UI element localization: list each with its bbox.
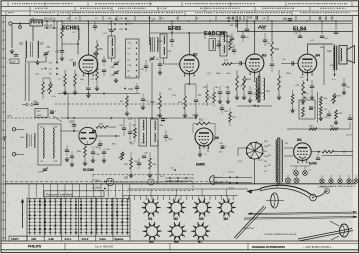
cap C26 <box>194 84 198 113</box>
svg-text:B4: B4 <box>224 217 228 221</box>
header row2 text <box>35 8 346 9</box>
cluster right of B3 caps <box>241 30 250 42</box>
resistor R10 <box>159 92 162 113</box>
header rule 2 <box>1 10 359 12</box>
labels sprinkle 4 <box>300 65 336 79</box>
wire IF down <box>111 58 113 62</box>
coil S26 <box>38 41 39 58</box>
tube socket B2 (bottom view) <box>167 199 186 217</box>
svg-text:C80a: C80a <box>95 181 101 183</box>
node labels k17 p1 p2 <box>35 63 53 76</box>
wire antenna to filter <box>12 23 30 26</box>
svg-text:B3: B3 <box>199 217 203 221</box>
top strip labels mid <box>160 18 199 20</box>
svg-text:PHILIPS: PHILIPS <box>28 245 42 249</box>
tuning shaft <box>298 229 353 242</box>
label C45 <box>283 19 292 22</box>
pickup connector <box>106 178 114 186</box>
IF can3 outline <box>220 32 227 56</box>
label C47t <box>310 40 325 49</box>
cap C48 <box>310 80 314 95</box>
top strip labels left <box>31 18 99 20</box>
top strip labels right <box>262 18 335 20</box>
socket header line <box>128 189 248 197</box>
rail junction dots <box>32 20 337 22</box>
cap C89 <box>102 148 106 158</box>
vertical wire x324 <box>323 45 325 85</box>
node u1 dot <box>192 115 197 119</box>
tag strip box <box>126 39 140 78</box>
tube B4 EL84 <box>298 54 317 75</box>
resistor R27 <box>302 79 309 99</box>
svg-text:4-48: 4-48 <box>11 61 16 63</box>
wire B3 grid <box>232 61 246 65</box>
label C36 <box>156 115 161 117</box>
label R22 <box>275 48 280 51</box>
label C31 <box>168 139 173 141</box>
wire TX to B5 <box>284 148 294 156</box>
svg-text:C86a: C86a <box>95 188 101 190</box>
label EZ40 <box>309 162 317 166</box>
lamp sublabels <box>320 185 355 188</box>
resistor in box <box>302 107 305 117</box>
svg-text:S.p.A. MILANO: S.p.A. MILANO <box>95 244 113 248</box>
vertical node line x149 <box>149 16 156 45</box>
comb ticks under chassis <box>123 196 238 201</box>
right margin rule <box>352 16 354 184</box>
footer schema title <box>252 245 286 249</box>
socket label B2 <box>174 217 178 221</box>
trimmer C84 <box>38 167 48 173</box>
IF can4 outline <box>151 119 159 146</box>
svg-text:EM80: EM80 <box>196 163 205 167</box>
tube B5 EZ40 <box>294 143 312 163</box>
wire vertical x68 mid <box>67 94 69 119</box>
svg-text:C82: C82 <box>69 122 74 124</box>
cap C42 <box>225 86 230 99</box>
label +7 <box>303 96 309 100</box>
top right stubs <box>319 16 332 21</box>
lamp C2 <box>303 170 312 175</box>
cap C34r <box>263 33 271 46</box>
cap C82 <box>69 120 76 131</box>
ballast box R2 <box>35 108 48 117</box>
fuse terminals <box>22 103 36 105</box>
vertical wire x57 <box>56 21 58 62</box>
ground trimmer161 <box>114 78 118 83</box>
wire B2 cathode <box>188 74 190 84</box>
resistor R63 <box>124 152 132 173</box>
volume pot R18 <box>241 76 247 95</box>
switch matrix frame <box>27 198 130 242</box>
label C20 <box>124 87 133 91</box>
wire pickup 2 <box>154 181 185 183</box>
ground R11 <box>183 113 187 118</box>
label C33 <box>229 23 238 27</box>
svg-text:EZ40: EZ40 <box>309 162 317 166</box>
tube socket B4 (bottom view) <box>217 199 236 217</box>
second rail right <box>62 23 352 25</box>
phono dashed box <box>93 175 193 191</box>
ground mid cluster <box>129 173 152 178</box>
node labels u30 u31 <box>226 18 237 22</box>
svg-text:Posizione Onde Medie: Posizione Onde Medie <box>46 192 74 196</box>
tube label EL84 <box>293 27 307 33</box>
power TX primary <box>275 140 276 182</box>
header row1 text <box>12 3 347 4</box>
socket label B7 <box>198 240 202 244</box>
ground R6 <box>73 90 77 95</box>
wire B4 grid <box>281 61 298 65</box>
power TX secondary <box>281 140 282 182</box>
wire C8 gnd <box>61 52 63 56</box>
wire B4 cathode <box>306 73 308 80</box>
vertical line x152 <box>151 62 153 118</box>
tube socket B7 (bottom view) <box>191 222 210 240</box>
wire net y62 l <box>104 65 116 67</box>
wire B3 anode <box>254 21 256 54</box>
label O.C.1 <box>65 237 72 241</box>
cap C98 <box>128 122 136 140</box>
svg-text:B3: B3 <box>262 54 266 58</box>
label C86b <box>96 154 101 156</box>
cap C9 <box>93 21 97 31</box>
labels S-contacts <box>264 141 269 173</box>
node row k30 u31 <box>108 18 127 21</box>
resistor R36 <box>291 90 294 108</box>
rail EF85 anode <box>150 32 212 34</box>
header separators <box>6 2 352 15</box>
FM input coil S30 <box>20 134 27 148</box>
resistor R4 <box>64 70 67 90</box>
socket label B1 <box>148 217 152 221</box>
wire R51 right <box>108 126 116 128</box>
ground antenna <box>10 49 14 54</box>
pointer rail top <box>248 211 357 215</box>
wire diagonal <box>53 116 62 122</box>
label +205V <box>303 91 309 95</box>
ground C52sp <box>342 90 346 95</box>
coil right of core <box>264 78 265 100</box>
tube socket B6 (bottom view) <box>168 222 187 240</box>
tube label EF85 <box>168 26 181 32</box>
ground C40 C42 <box>218 99 230 104</box>
cap C22 <box>158 60 162 70</box>
footer app code <box>303 246 332 249</box>
label G.M. <box>49 237 55 241</box>
chassis dashes <box>5 181 230 183</box>
dial cord curve <box>260 185 311 194</box>
switch group separators <box>44 198 113 242</box>
res R15b <box>229 108 237 126</box>
labels windings <box>268 143 288 167</box>
label R24 <box>247 79 271 93</box>
trimmer C16 <box>110 61 119 69</box>
wires EABC region <box>205 32 232 39</box>
label S32f <box>40 127 58 163</box>
antenna terminal A2 <box>19 26 22 29</box>
svg-text:ECC85: ECC85 <box>83 168 94 172</box>
ground R23 <box>277 95 281 100</box>
TASTI box <box>9 236 27 241</box>
resistor R7 <box>96 62 99 86</box>
vertical wire x317 <box>317 92 319 123</box>
ground R10 <box>158 113 162 118</box>
mains plug <box>210 176 223 185</box>
cap C15 <box>102 70 106 76</box>
socket label B3 <box>199 217 203 221</box>
header rule 1 <box>1 6 359 8</box>
wire vertical pair <box>25 63 29 101</box>
rule y31 right half <box>238 31 353 33</box>
svg-text:S 2a: S 2a <box>52 96 57 98</box>
dial top lamps <box>285 178 358 183</box>
tube label ECH81 <box>62 26 80 32</box>
resistor R31 <box>320 107 329 116</box>
switch contact columns <box>29 198 129 235</box>
svg-text:k15 p15: k15 p15 <box>44 26 53 28</box>
cap x143 y98 <box>141 94 150 110</box>
svg-text:C6: C6 <box>47 45 51 49</box>
cap C4 <box>14 55 18 57</box>
svg-text:— APP. BI 550 A /03 951 e: — APP. BI 550 A /03 951 e <box>303 246 332 249</box>
label EM80 <box>196 163 205 167</box>
svg-text:S26: S26 <box>40 44 45 46</box>
label O.C.2 <box>82 237 89 241</box>
resistor R40 <box>322 150 334 153</box>
label C80a <box>95 181 107 183</box>
footer rule mid <box>1 242 359 244</box>
cap C24 <box>170 33 174 47</box>
wire cathode bus <box>185 83 196 85</box>
cap C35 <box>230 33 234 44</box>
label B4 <box>316 54 320 58</box>
transformer S12b core <box>258 76 260 102</box>
det vertical x247 <box>245 16 249 31</box>
footer separators <box>65 243 248 250</box>
heater wires bottom mid <box>165 177 192 182</box>
IF coil S14 <box>164 47 165 55</box>
cap C14 <box>109 21 113 36</box>
wire EM80 pins <box>198 146 208 157</box>
tube B2 EF85 <box>180 55 199 77</box>
caps between box and B7 <box>65 145 74 167</box>
extra grounds right <box>290 108 338 125</box>
svg-text:B2: B2 <box>174 217 178 221</box>
tube B1 ECH81 <box>79 55 98 76</box>
FM terminal 1 <box>12 128 15 131</box>
cap C10 <box>74 62 76 66</box>
footer SpA Milano <box>95 244 113 248</box>
bus C92 <box>60 117 196 119</box>
ground R18 <box>242 95 246 100</box>
resistor R3 <box>61 26 64 38</box>
svg-text:R12: R12 <box>199 119 204 122</box>
svg-text:ECH81: ECH81 <box>62 26 80 32</box>
label C6 <box>47 45 51 49</box>
tuned line 1 <box>43 128 44 158</box>
pulley axle <box>266 200 284 202</box>
FM dipole symbol <box>3 137 7 141</box>
IF can outline <box>108 36 115 58</box>
resistor R12 horiz <box>196 122 210 125</box>
cap det1 <box>217 40 221 49</box>
svg-text:S55: S55 <box>124 178 129 180</box>
diode load R16 <box>236 70 239 95</box>
wire mains bottom <box>276 184 278 188</box>
trimmer C26b <box>149 56 159 61</box>
node row k31 u31b <box>108 23 133 26</box>
svg-text:O.C.2: O.C.2 <box>82 237 89 241</box>
chassis bus <box>5 183 356 185</box>
dial pointer <box>234 206 266 239</box>
resistor R33b <box>335 110 343 119</box>
cap C30 label <box>128 118 133 121</box>
labels row y145 <box>99 143 146 146</box>
res cluster x127 y95 <box>120 94 129 116</box>
direction arrow <box>21 199 24 229</box>
resistor R22 <box>271 21 274 62</box>
ground R7 <box>95 86 99 91</box>
resistor R6 <box>74 70 77 90</box>
FM coil S31f <box>30 134 35 148</box>
wire selector left <box>238 148 247 156</box>
resistor R32 horizontal <box>330 126 338 131</box>
header rule 3 <box>1 15 359 17</box>
res R62 <box>129 118 136 144</box>
FM feeder wires <box>16 129 24 154</box>
wire B3 cathode <box>254 72 256 82</box>
IF can2 outline <box>160 34 167 58</box>
cap C44b <box>248 86 257 103</box>
wire pickup <box>114 181 148 183</box>
heater bus wire <box>287 128 350 130</box>
wire filter down <box>32 26 34 41</box>
label Fono <box>100 237 107 241</box>
wire coil b1 grid <box>78 40 79 54</box>
idler pulley <box>310 194 317 201</box>
resistor R50 <box>84 145 87 161</box>
label TASTI <box>11 237 19 241</box>
cap C51 <box>316 153 320 160</box>
svg-text:O.C.1: O.C.1 <box>65 237 72 241</box>
cap C30a <box>119 118 126 136</box>
node u8 <box>171 168 176 171</box>
label Spento <box>115 237 124 241</box>
switch matrix title box <box>44 191 104 197</box>
wire C88 <box>99 140 101 150</box>
label C65 <box>248 15 258 19</box>
EL84 top cluster <box>294 30 302 38</box>
label C47b <box>160 176 165 178</box>
label C14 <box>103 33 108 35</box>
label S26 <box>40 44 45 46</box>
svg-text:12 14: 12 14 <box>346 135 352 137</box>
svg-text:C89a: C89a <box>7 116 13 118</box>
cap det2 <box>232 44 236 55</box>
svg-text:C65: C65 <box>248 17 253 19</box>
label 12 14 plug <box>228 171 234 173</box>
tuning pulley disc <box>271 193 279 208</box>
IF coil S31 <box>154 121 155 130</box>
labels sprinkle 3 <box>282 59 292 75</box>
wire bus under B1 <box>58 93 140 95</box>
cap C52sp <box>342 78 351 90</box>
cap C40 <box>214 86 222 99</box>
tuned line 2 <box>53 128 54 158</box>
label R21 <box>258 26 267 31</box>
label B2 <box>193 53 197 57</box>
labels sprinkle 2 <box>168 89 177 97</box>
wire drop right <box>348 114 352 129</box>
cap C46 <box>270 64 274 72</box>
coil S27 <box>150 38 151 52</box>
speaker <box>339 46 355 65</box>
svg-text:F.M.: F.M. <box>32 237 37 241</box>
svg-text:SCHEMA DI PRINCIPIO: SCHEMA DI PRINCIPIO <box>252 245 286 249</box>
tube socket B5 (bottom view) <box>143 222 162 240</box>
svg-text:R10: R10 <box>151 101 156 104</box>
label S17sel <box>238 161 243 163</box>
resistor R30a <box>320 97 329 106</box>
coil S29 <box>157 38 158 52</box>
mid cluster x150 y60 <box>140 60 148 72</box>
power transformer core <box>278 138 280 184</box>
node labels k15 p15 <box>44 26 58 29</box>
node labels k16 p16 u3 <box>44 19 56 22</box>
cap C86b <box>91 146 95 158</box>
label R12 <box>199 119 204 122</box>
tube B6 EM80 <box>195 128 213 149</box>
wire antenna drop <box>11 25 13 48</box>
wire vertical x172 top <box>171 21 173 33</box>
switch matrix title <box>46 192 74 196</box>
label C28 <box>167 51 172 53</box>
trimmer C21 <box>113 70 119 75</box>
resistor R1 <box>42 78 45 99</box>
label C48 <box>295 85 300 87</box>
svg-text:R22: R22 <box>275 48 280 51</box>
pickup connector 2 <box>148 179 154 185</box>
wires selector to labels <box>258 144 263 160</box>
resistor R51 <box>96 126 108 129</box>
label R50 <box>77 151 82 153</box>
wire B1 cathode <box>87 74 89 86</box>
resistor R5 <box>96 40 99 62</box>
top connection stubs <box>70 16 310 21</box>
socket label B5 <box>149 240 153 244</box>
electrolytic C11 <box>50 110 57 114</box>
cap C8 <box>56 51 65 54</box>
cap C38b <box>220 104 229 114</box>
svg-text:B5: B5 <box>297 138 301 142</box>
cap C13 <box>102 56 106 66</box>
wire EM80 frame <box>193 124 215 141</box>
coil core S25/S26 <box>31 42 33 57</box>
note small right <box>318 186 332 189</box>
left border inner line <box>2 16 4 241</box>
labels under det <box>207 73 232 75</box>
svg-text:12 14: 12 14 <box>228 171 234 173</box>
wire B2 anode <box>188 33 190 55</box>
res R14 det <box>226 36 231 50</box>
right rail stub <box>320 21 338 40</box>
electrolytic C58 <box>309 106 316 110</box>
cap C12 <box>86 88 90 93</box>
wire B5 to border <box>322 151 353 156</box>
cord anchor arrow <box>247 189 262 194</box>
knob spokes <box>330 221 339 240</box>
